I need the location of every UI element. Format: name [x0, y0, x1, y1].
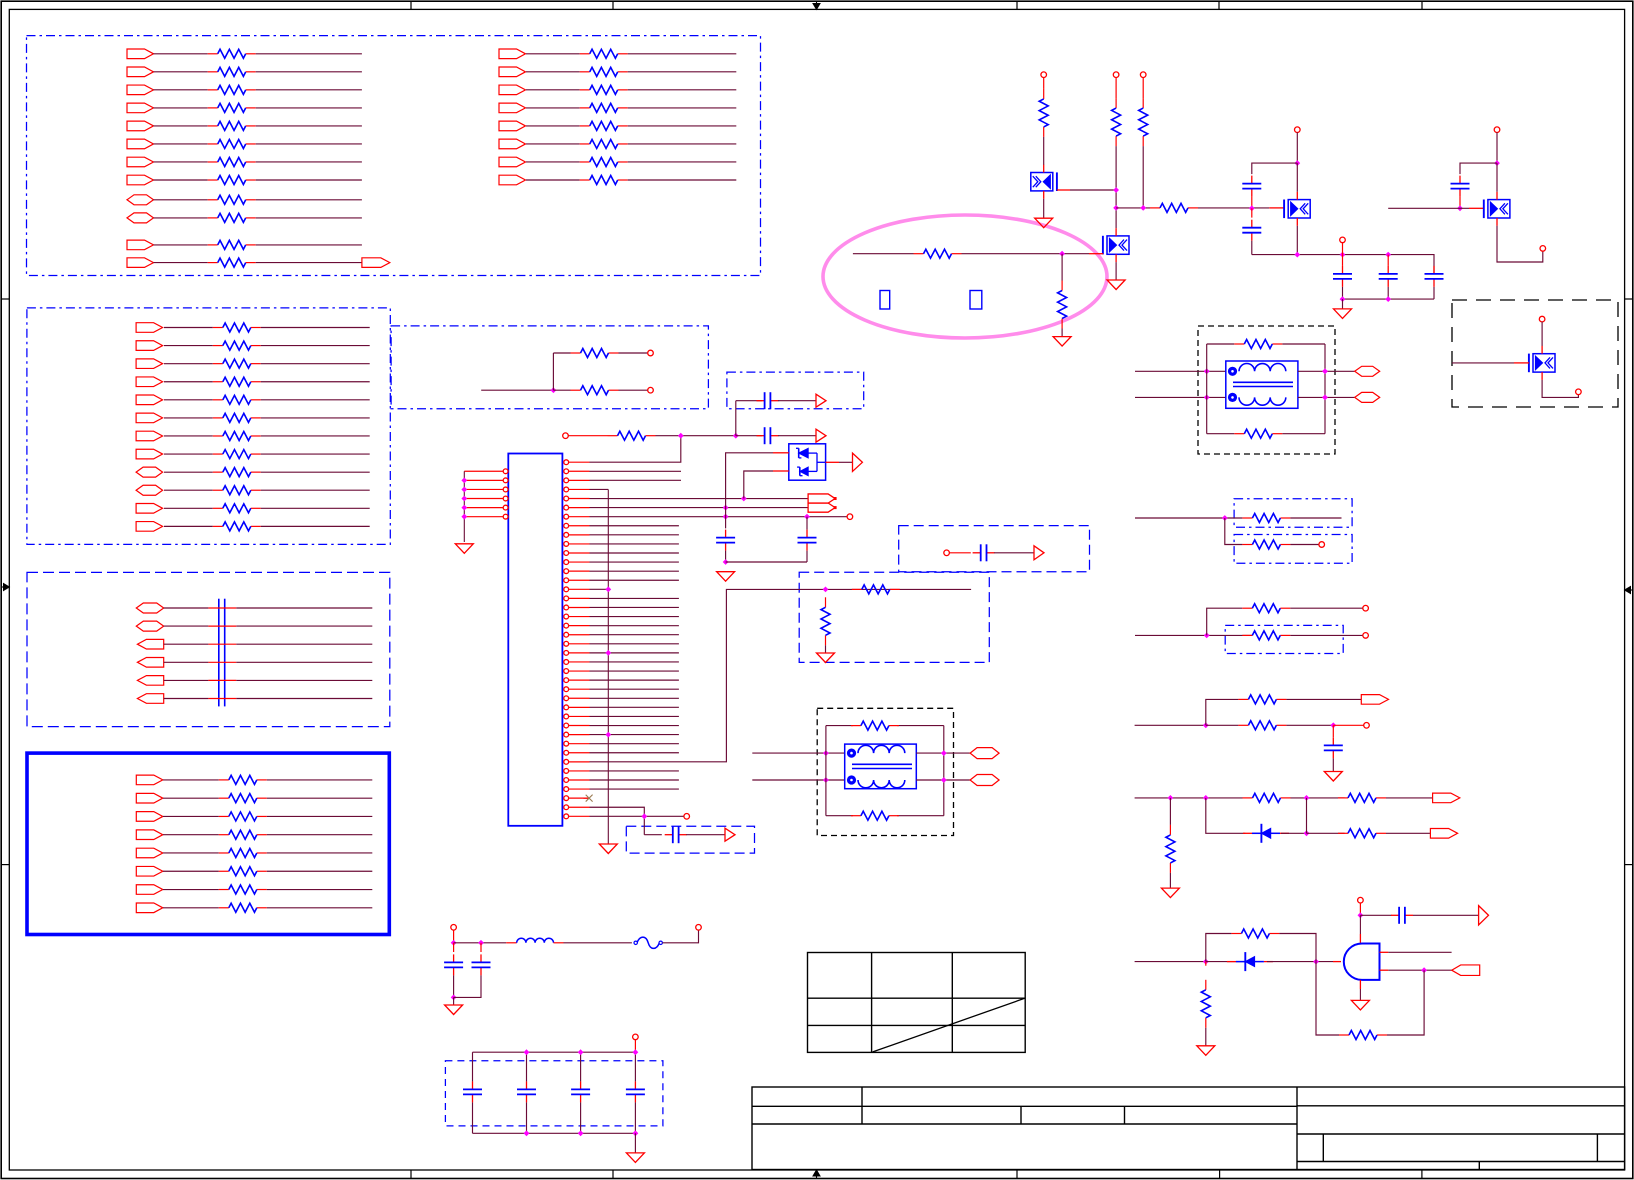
node open: [847, 514, 853, 520]
wire pinR30: [590, 725, 679, 727]
resistor R5d: [219, 834, 229, 836]
resistor R3j: [213, 489, 223, 491]
wire: [1205, 962, 1207, 966]
junction: [1204, 633, 1210, 639]
wire: [628, 179, 737, 181]
node open: [1113, 72, 1119, 78]
wire: [752, 752, 844, 754]
wire: [1386, 797, 1433, 799]
pin R12: [564, 560, 569, 565]
port chevron1: [808, 494, 835, 503]
wire gate Q1: [1057, 189, 1070, 191]
wire: [628, 143, 737, 145]
ground: [1324, 772, 1342, 782]
wire: [481, 389, 553, 391]
junction: [1385, 296, 1391, 302]
wire: [736, 435, 762, 437]
junction: [723, 505, 729, 511]
pin R36: [564, 778, 569, 783]
wire: [154, 71, 208, 73]
junction: [1457, 205, 1463, 211]
node open: [1576, 389, 1582, 395]
port chevron2: [808, 503, 835, 512]
port out: [1433, 793, 1460, 803]
wire: [826, 815, 853, 817]
wire: [261, 381, 370, 383]
wire: [256, 53, 362, 55]
wire: [1135, 634, 1252, 636]
wire pinR21: [590, 643, 679, 645]
ground: [1053, 337, 1071, 347]
wire: [580, 1102, 582, 1133]
wire: [261, 363, 370, 365]
capacitor C20: [453, 954, 455, 962]
junction: [578, 1049, 584, 1055]
resistor R1d: [208, 107, 218, 109]
wire: [454, 975, 481, 997]
wire: [806, 517, 808, 530]
wire: [526, 1102, 528, 1133]
port P3i: [136, 467, 163, 477]
wire: [154, 143, 208, 145]
port P2g: [499, 157, 526, 167]
wire: [752, 779, 844, 781]
wire: [526, 53, 580, 55]
group box B1: [27, 36, 761, 276]
port P1e: [127, 121, 154, 131]
pin R3: [564, 478, 569, 483]
wire: [164, 643, 209, 645]
wire: [506, 942, 517, 944]
port P1j: [127, 213, 154, 223]
pin R19: [564, 623, 569, 628]
resistor R28: [1242, 517, 1252, 519]
wire: [619, 352, 648, 354]
wire: [267, 834, 373, 836]
port P4b: [136, 621, 163, 631]
node open: [1540, 246, 1546, 252]
wire: [454, 942, 507, 944]
wire: [154, 53, 208, 55]
group box B16: [445, 1061, 663, 1126]
mosfet Q3: [1283, 200, 1285, 219]
ground: [1035, 218, 1053, 228]
resistor R1g: [208, 161, 218, 163]
group box B2: [27, 308, 390, 545]
resistor R2e: [580, 125, 590, 127]
wire: [1207, 433, 1235, 435]
wire: [1169, 798, 1171, 825]
resistor R1c: [208, 89, 218, 91]
junction: [1222, 515, 1228, 521]
wire: [1333, 724, 1364, 726]
wire pinR9: [590, 534, 679, 536]
wire: [261, 327, 370, 329]
title block: [752, 1087, 1625, 1170]
component placeholder: [970, 291, 982, 310]
highlight ellipse: [823, 215, 1107, 338]
wire: [1387, 287, 1389, 299]
junction: [605, 732, 611, 738]
node open: [696, 925, 702, 931]
resistor R2a: [580, 53, 590, 55]
wire: [1251, 208, 1253, 217]
resistor R23: [1150, 207, 1160, 209]
wire: [164, 507, 213, 509]
wire: [1298, 370, 1355, 372]
node open: [1295, 127, 1301, 133]
resistor R16: [851, 815, 861, 817]
wire loop left: [1206, 344, 1208, 434]
pin R2: [564, 469, 569, 474]
wire: [163, 852, 219, 854]
junction: [1304, 830, 1310, 836]
resistor R14: [825, 597, 827, 607]
wire: [962, 253, 1063, 255]
node open: [684, 814, 690, 820]
wire gate: [1452, 362, 1514, 364]
wire: [686, 834, 725, 836]
resistor R11: [571, 389, 581, 391]
port P2b: [499, 67, 526, 77]
junction: [1385, 252, 1391, 258]
port out: [1430, 829, 1457, 839]
junction: [1313, 959, 1319, 965]
wire: [1279, 934, 1316, 962]
wire: [656, 435, 736, 437]
resistor R2d: [580, 107, 590, 109]
port P3c: [136, 359, 163, 369]
capacitor C11: [1251, 220, 1253, 228]
pin R23: [564, 660, 569, 665]
wire: [916, 779, 970, 781]
wire pinR20: [590, 634, 679, 636]
capacitor Cb635: [634, 1081, 636, 1089]
wire: [778, 435, 816, 437]
wire: [634, 1040, 636, 1053]
port P2e: [499, 121, 526, 131]
wire: [628, 53, 737, 55]
wire loop left: [825, 726, 827, 816]
node open: [633, 1034, 639, 1040]
node open: [1340, 237, 1346, 243]
wire: [164, 698, 209, 700]
wire: [267, 889, 373, 891]
group box B7: [626, 826, 754, 853]
wire: [1286, 698, 1361, 700]
resistor R3b: [213, 345, 223, 347]
and gate U2: [1344, 944, 1380, 980]
wire pinR13: [590, 570, 679, 572]
resistor R3h: [213, 453, 223, 455]
wire: [1291, 797, 1345, 799]
wire: [1316, 962, 1339, 1035]
node open: [1363, 605, 1369, 611]
junction: [823, 777, 829, 783]
connector U1: [508, 454, 562, 826]
mosfet Q4: [1483, 200, 1485, 219]
wire: [1387, 970, 1424, 1035]
border tick top: [1016, 1, 1018, 9]
resistor R5f: [219, 870, 229, 872]
wire pinR3: [590, 479, 682, 481]
wire: [163, 889, 219, 891]
junction: [823, 587, 829, 593]
wire: [634, 1102, 636, 1133]
wire: [261, 453, 370, 455]
capacitor C3: [725, 530, 727, 538]
wire: [552, 353, 554, 390]
capacitor C14: [1433, 266, 1435, 274]
resistor R36: [1338, 797, 1348, 799]
wire pinR16: [590, 597, 679, 599]
wire: [164, 345, 213, 347]
wire: [1290, 517, 1341, 519]
group box B9: [799, 572, 989, 662]
node open: [1358, 897, 1364, 903]
port P5g: [136, 885, 163, 895]
capacitor C7: [665, 834, 673, 836]
wire: [164, 661, 209, 663]
wire: [1380, 951, 1389, 953]
wire: [480, 943, 482, 952]
wire pinR22: [590, 652, 679, 654]
port P4d: [137, 658, 163, 668]
wire: [256, 71, 362, 73]
wire: [256, 244, 362, 246]
junction: [1204, 368, 1210, 374]
wire: [1043, 199, 1045, 219]
wire loop right: [1324, 344, 1326, 434]
port P2c: [499, 85, 526, 95]
resistor R3i: [213, 471, 223, 473]
pin L5: [503, 505, 508, 510]
group box B12 (black): [1452, 300, 1618, 407]
resistor R22: [1142, 98, 1144, 108]
port P3h: [136, 449, 163, 459]
resistor R12: [608, 435, 618, 437]
wire: [1296, 132, 1298, 163]
node open: [1364, 723, 1370, 729]
pin L6: [503, 514, 508, 519]
wire: [628, 89, 737, 91]
junction: [1340, 252, 1346, 258]
wire: [1135, 370, 1226, 372]
wire: [1460, 163, 1497, 174]
wire: [236, 698, 372, 700]
ground: [717, 572, 735, 582]
wire pinR32: [590, 743, 679, 745]
node open: [1539, 316, 1545, 322]
border tick bottom: [1219, 1170, 1221, 1179]
capacitor C2: [757, 400, 765, 402]
resistor R5e: [219, 852, 229, 854]
wire pinR4 to bus: [590, 488, 609, 490]
junction: [1203, 795, 1209, 801]
wire: [1206, 961, 1250, 963]
pin R7: [564, 514, 569, 519]
resistor R3g: [213, 435, 223, 437]
group box B4: [727, 372, 864, 409]
resistor R20: [1043, 89, 1045, 99]
junction: [1059, 251, 1065, 257]
wire: [267, 852, 373, 854]
wire: [1342, 255, 1344, 266]
wire: [154, 199, 208, 201]
resistor R10: [571, 352, 581, 354]
node open: [451, 925, 457, 931]
junction: [1113, 205, 1119, 211]
border arrow top: [816, 1, 818, 9]
pin R35: [564, 769, 569, 774]
border tick right: [1625, 864, 1633, 866]
capacitor C4: [806, 530, 808, 538]
pin R20: [564, 632, 569, 637]
junction: [1204, 395, 1210, 401]
port P5e: [136, 848, 163, 858]
junction: [524, 1130, 530, 1136]
port hex out: [1355, 392, 1380, 402]
wire: [164, 625, 209, 627]
border arrow left: [1, 586, 9, 588]
resistor R21: [1115, 98, 1117, 108]
pin R11: [564, 551, 569, 556]
bus entry stub: [208, 607, 236, 609]
wire: [526, 1052, 528, 1081]
junction: [1168, 795, 1174, 801]
wire: [261, 435, 370, 437]
pin R37: [564, 787, 569, 792]
junction: [1330, 722, 1336, 728]
ground: [626, 1153, 644, 1163]
ground: [1107, 280, 1125, 290]
wire: [1043, 137, 1045, 165]
wire: [154, 107, 208, 109]
wire: [1298, 396, 1355, 398]
junction: [461, 487, 467, 493]
wire: [1459, 197, 1461, 209]
border arrow bottom: [816, 1170, 818, 1179]
pin R10: [564, 542, 569, 547]
wire: [1290, 607, 1363, 609]
ground: [1334, 309, 1352, 319]
wire: [256, 262, 362, 264]
wire: [256, 161, 362, 163]
port P1l-out: [362, 258, 390, 268]
diode D1a: [799, 448, 809, 458]
wire: [735, 401, 737, 436]
port P2h: [499, 175, 526, 185]
capacitor Cb581: [580, 1081, 582, 1089]
wire: [526, 179, 580, 181]
wire: [1342, 287, 1344, 299]
wire: [553, 389, 570, 391]
pin R34: [564, 759, 569, 764]
port out: [1452, 965, 1480, 976]
junction: [1203, 959, 1209, 965]
wire: [236, 607, 372, 609]
node open: [1319, 542, 1325, 548]
border tick bottom: [1421, 1170, 1423, 1179]
resistor R1k: [208, 244, 218, 246]
wire: [236, 679, 372, 681]
wire pinR34: [590, 589, 972, 761]
border tick bottom: [1016, 1170, 1018, 1179]
port arrow: [1479, 906, 1489, 925]
pin R26: [564, 687, 569, 692]
wire: [256, 89, 362, 91]
wire: [154, 125, 208, 127]
wire: [164, 363, 213, 365]
port hex out: [970, 775, 999, 786]
resistor R39: [1205, 980, 1207, 990]
wire: [1306, 798, 1308, 833]
wire pinR28: [590, 706, 679, 708]
wire: [1433, 287, 1435, 299]
capacitor C21: [480, 954, 482, 962]
pin R22: [564, 650, 569, 655]
wire pinR29: [590, 715, 679, 717]
port P3d: [136, 377, 163, 387]
node open: [1363, 633, 1369, 639]
pin R28: [564, 705, 569, 710]
wire: [628, 161, 737, 163]
pin R30: [564, 723, 569, 728]
wire: [1142, 146, 1144, 208]
wire: [164, 607, 209, 609]
wire: [628, 125, 737, 127]
port P3l: [136, 522, 163, 532]
wire: [261, 417, 370, 419]
wire pinR40: [590, 815, 684, 817]
resistor R13: [852, 588, 862, 590]
wire pinR17: [590, 606, 679, 608]
resistor R3k: [213, 507, 223, 509]
bus entry stub: [208, 643, 236, 645]
resistor R1b: [208, 71, 218, 73]
junction: [578, 1130, 584, 1136]
junction: [723, 514, 729, 520]
junction: [1113, 187, 1119, 193]
port arrow: [725, 828, 735, 841]
wire pinR33: [590, 752, 679, 754]
wire: [564, 942, 632, 944]
port arrow: [816, 394, 826, 407]
wire: [463, 471, 465, 542]
wire: [994, 552, 1034, 554]
border tick top: [410, 1, 412, 9]
pin R38: [564, 796, 569, 801]
ground: [1197, 1046, 1215, 1056]
wire: [628, 107, 737, 109]
wire: [472, 1052, 474, 1081]
resistor R1j: [208, 217, 218, 219]
wire: [1206, 798, 1246, 833]
group box B6 (solid): [27, 753, 389, 934]
wire: [1252, 255, 1434, 275]
wire: [1342, 243, 1344, 255]
wire: [453, 930, 455, 943]
wire: [1359, 915, 1361, 934]
port P1k: [127, 240, 154, 250]
resistor R1f: [208, 143, 218, 145]
wire: [267, 907, 373, 909]
ground: [817, 653, 835, 663]
node open: [1494, 127, 1500, 133]
pin R18: [564, 614, 569, 619]
pin R15: [564, 587, 569, 592]
port P5a: [136, 775, 163, 785]
